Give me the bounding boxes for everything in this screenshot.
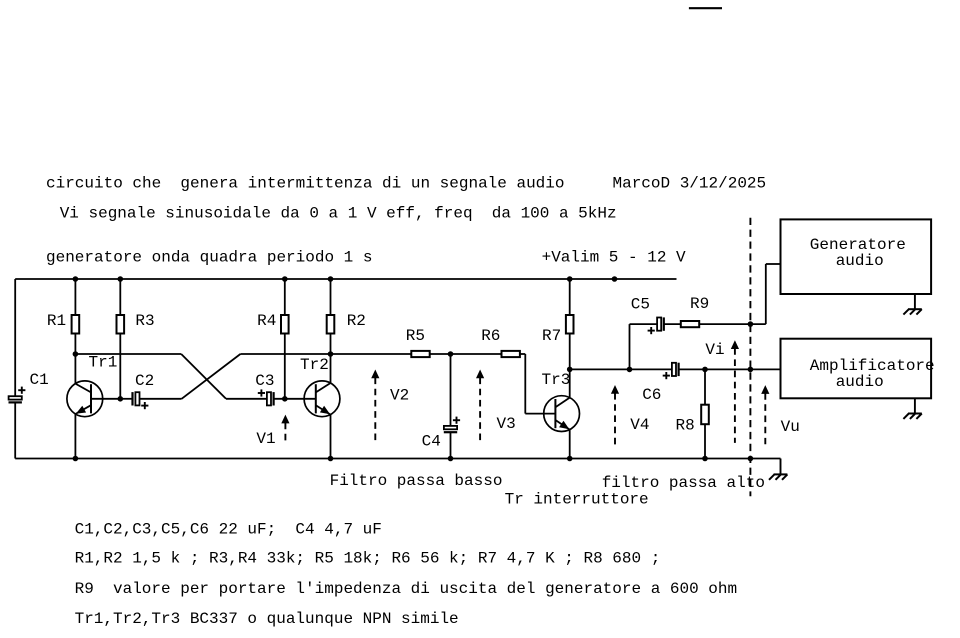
svg-text:C3: C3 bbox=[255, 372, 274, 390]
resistor R7 bbox=[566, 315, 574, 334]
wire R1 bottom bbox=[74, 334, 76, 355]
svg-text:R3: R3 bbox=[135, 312, 154, 330]
svg-text:R4: R4 bbox=[257, 312, 276, 330]
wire R1 top bbox=[74, 279, 76, 315]
capacitor C4 bbox=[444, 426, 457, 429]
svg-text:R9 valore per portare l'imped: R9 valore per portare l'impedenza di usc… bbox=[75, 580, 738, 598]
arrow V2 bbox=[371, 370, 379, 379]
svg-text:Tr1,Tr2,Tr3 BC337 o qualunque: Tr1,Tr2,Tr3 BC337 o qualunque NPN simile bbox=[75, 610, 459, 628]
wire R6 elbow bbox=[520, 353, 525, 355]
svg-text:R8: R8 bbox=[676, 416, 695, 434]
svg-text:R9: R9 bbox=[690, 295, 709, 313]
resistor R9 bbox=[681, 321, 699, 327]
wire C2 to diagonal bbox=[140, 398, 182, 400]
wire Tr2 collector bbox=[330, 354, 332, 383]
wire R2 bottom bbox=[330, 334, 332, 355]
resistor R5 bbox=[411, 351, 429, 357]
arrow V4 bbox=[611, 385, 619, 394]
wire top supply rail bbox=[15, 278, 676, 280]
wire generator vertical bbox=[765, 264, 767, 324]
wire Tr3 emitter bbox=[569, 430, 571, 459]
svg-text:R1,R2 1,5 k ; R3,R4 33k; R5 18: R1,R2 1,5 k ; R3,R4 33k; R5 18k; R6 56 k… bbox=[75, 550, 661, 568]
transistor Tr2 bbox=[304, 381, 340, 417]
wire R7 top bbox=[569, 279, 571, 315]
wire into generator box bbox=[766, 263, 781, 265]
svg-text:+Valim 5 - 12 V: +Valim 5 - 12 V bbox=[542, 248, 686, 266]
arrow Vi bbox=[731, 340, 739, 349]
svg-text:R7: R7 bbox=[542, 327, 561, 345]
wire Tr1 emitter bbox=[74, 414, 76, 459]
wire R5 to R6 bbox=[430, 353, 502, 355]
wire C3 to Tr2 base bbox=[274, 398, 316, 400]
arrow Vu bbox=[761, 385, 769, 394]
resistor R3 bbox=[117, 315, 125, 334]
resistor R1 bbox=[72, 315, 80, 334]
wire Tr3 collector bbox=[569, 369, 571, 397]
transistor Tr3 bbox=[544, 396, 580, 432]
wire C4 top bbox=[450, 354, 452, 426]
wire bottom ground rail bbox=[15, 458, 780, 460]
wire Tr1 base bbox=[91, 398, 120, 400]
svg-text:Tr1: Tr1 bbox=[89, 354, 118, 372]
svg-text:V3: V3 bbox=[497, 415, 516, 433]
wire to C3 bbox=[226, 398, 267, 400]
svg-text:V2: V2 bbox=[390, 386, 409, 404]
wire left vertical lower bbox=[14, 402, 16, 458]
svg-text:V4: V4 bbox=[630, 416, 649, 434]
wire R9 to elbow bbox=[699, 323, 766, 325]
wire R8 bottom bbox=[704, 424, 706, 458]
svg-text:Tr2: Tr2 bbox=[300, 356, 329, 374]
wire left vertical upper bbox=[14, 279, 16, 396]
ground main rail bbox=[780, 459, 782, 475]
wire cross diagonal B bbox=[182, 354, 241, 399]
svg-text:filtro passa alto: filtro passa alto bbox=[602, 474, 765, 492]
svg-text:Filtro passa basso: Filtro passa basso bbox=[330, 472, 503, 490]
capacitor C1 bbox=[9, 396, 22, 399]
svg-text:Tr3: Tr3 bbox=[542, 371, 571, 389]
wire cross diagonal A bbox=[181, 354, 226, 399]
box Amplificatore audio bbox=[781, 339, 932, 399]
wire Tr3 collector node to C6 bbox=[570, 368, 672, 370]
wire C6 to amplifier box bbox=[679, 368, 781, 370]
wire Tr1 collector horizontal bbox=[75, 353, 181, 355]
resistor R2 bbox=[327, 315, 335, 334]
svg-text:C1,C2,C3,C5,C6 22 uF; C4 4,7: C1,C2,C3,C5,C6 22 uF; C4 4,7 uF bbox=[75, 520, 382, 538]
wire Tr1 collector bbox=[74, 354, 76, 384]
capacitor C2 bbox=[131, 392, 133, 405]
wire diagonal to Tr2 collector node bbox=[240, 353, 330, 355]
svg-text:C6: C6 bbox=[642, 386, 661, 404]
wire Tr2 collector to R5 bbox=[331, 353, 412, 355]
wire R3 bottom bbox=[119, 334, 121, 399]
wire to C5 bbox=[630, 323, 658, 325]
wire to Tr3 base bbox=[525, 413, 555, 415]
wire R4 top bbox=[284, 279, 286, 315]
svg-text:R6: R6 bbox=[481, 327, 500, 345]
svg-text:Vi segnale sinusoidale da 0 a: Vi segnale sinusoidale da 0 a 1 V eff, f… bbox=[60, 204, 617, 222]
dashed boundary line bbox=[749, 218, 751, 497]
ground generatore box bbox=[914, 294, 916, 309]
capacitor C6 bbox=[672, 363, 676, 376]
box Generatore audio bbox=[781, 219, 932, 294]
svg-text:Tr interruttore: Tr interruttore bbox=[505, 491, 649, 509]
svg-text:R5: R5 bbox=[406, 327, 425, 345]
resistor R4 bbox=[281, 315, 289, 334]
wire R4 bottom bbox=[284, 334, 286, 399]
svg-text:V1: V1 bbox=[256, 430, 275, 448]
wire R8 top bbox=[704, 369, 706, 404]
svg-text:C5: C5 bbox=[631, 296, 650, 314]
wire Tr2 emitter bbox=[330, 415, 332, 459]
wire C5 to R9 bbox=[664, 323, 681, 325]
svg-text:audio: audio bbox=[836, 373, 884, 391]
svg-text:C1: C1 bbox=[30, 371, 49, 389]
wire R2 top bbox=[330, 279, 332, 315]
arrow V3 bbox=[476, 370, 484, 379]
svg-text:C4: C4 bbox=[422, 432, 441, 450]
arrow V1 bbox=[281, 415, 289, 424]
top decorative line bbox=[689, 7, 722, 9]
transistor Tr1 bbox=[67, 381, 103, 417]
svg-text:C2: C2 bbox=[135, 372, 154, 390]
svg-text:circuito che genera intermitt: circuito che genera intermittenza di un … bbox=[46, 175, 766, 193]
wire C5 branch vertical bbox=[629, 324, 631, 369]
capacitor C3 bbox=[267, 392, 271, 405]
junction dots bbox=[73, 276, 79, 282]
wire R3 top bbox=[119, 279, 121, 315]
wire R3 node to C2 bbox=[120, 398, 132, 400]
svg-text:R1: R1 bbox=[47, 312, 66, 330]
resistor R8 bbox=[701, 405, 709, 425]
capacitor C5 bbox=[657, 318, 661, 331]
ground amplificatore box bbox=[914, 398, 916, 413]
wire R7 bottom bbox=[569, 334, 571, 370]
svg-text:Vu: Vu bbox=[781, 418, 800, 436]
svg-text:generatore onda quadra periodo: generatore onda quadra periodo 1 s bbox=[46, 248, 372, 266]
resistor R6 bbox=[502, 351, 520, 357]
svg-text:R2: R2 bbox=[347, 312, 366, 330]
svg-text:audio: audio bbox=[836, 252, 884, 270]
svg-text:Vi: Vi bbox=[705, 341, 724, 359]
wire C4 bottom bbox=[450, 432, 452, 458]
